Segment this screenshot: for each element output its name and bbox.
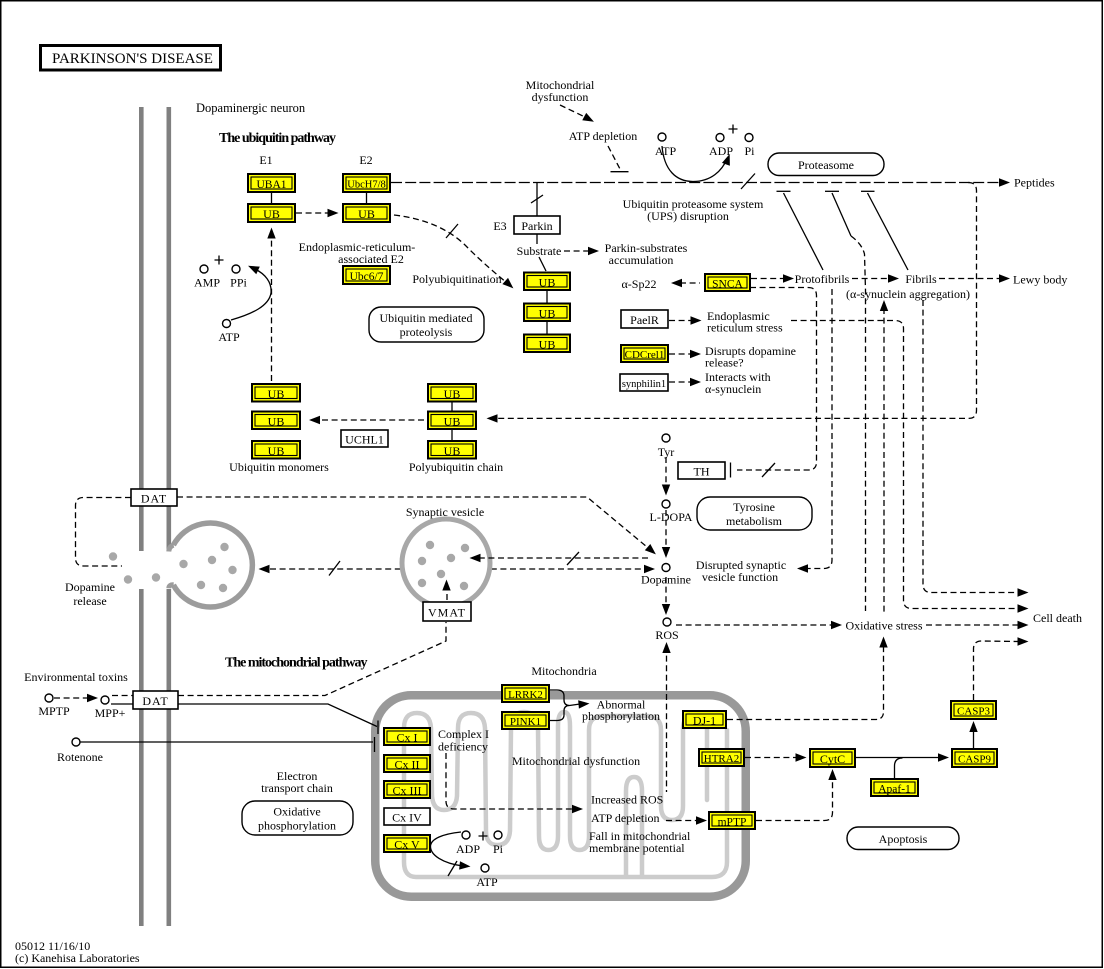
svg-text:Cell death: Cell death <box>1033 611 1082 625</box>
tick on bulb line <box>329 561 340 576</box>
gene box UB monomer 1 <box>252 384 300 402</box>
wire UB substrate 2-3 <box>546 321 548 335</box>
wire proteasome slant to Fibrils <box>868 193 909 270</box>
svg-text:ATP: ATP <box>655 144 677 158</box>
svg-text:Cx IV: Cx IV <box>392 811 422 825</box>
svg-text:α-Sp22: α-Sp22 <box>622 277 657 291</box>
wire UbcH7/8 to Peptides long dashed <box>391 182 1000 184</box>
wire DJ-1 to oxidative stress <box>727 645 884 720</box>
wire DAT to VMAT dashed <box>178 622 446 696</box>
bulb-membrane connector top <box>169 545 174 551</box>
svg-text:ROS: ROS <box>655 628 678 642</box>
wire SNCA inhibits TH <box>737 288 817 471</box>
svg-text:DAT: DAT <box>142 694 168 708</box>
svg-text:ADP: ADP <box>456 842 480 856</box>
gene box UB monomer 3 <box>252 441 300 459</box>
svg-text:E2: E2 <box>359 153 372 167</box>
wire UB chain 2-3 <box>451 429 453 441</box>
gene box CDCrel1 <box>621 345 668 362</box>
wire Parkin to Substrate <box>536 234 538 244</box>
svg-text:AMP: AMP <box>194 276 220 290</box>
svg-text:(c) Kanehisa Laboratories: (c) Kanehisa Laboratories <box>15 951 140 965</box>
svg-text:deficiency: deficiency <box>438 740 488 754</box>
wire ATP depletion inhibition <box>608 146 620 169</box>
svg-text:SNCA: SNCA <box>712 279 743 291</box>
svg-text:Dopamine: Dopamine <box>641 573 691 587</box>
svg-text:UB: UB <box>539 338 556 352</box>
svg-text:UbcH7/8: UbcH7/8 <box>347 180 386 191</box>
svg-text:Dopaminergic neuron: Dopaminergic neuron <box>196 101 306 115</box>
svg-text:Mitochondrial dysfunction: Mitochondrial dysfunction <box>512 754 640 768</box>
svg-text:ATP: ATP <box>218 330 240 344</box>
wire mPTP to CytC <box>756 779 833 821</box>
node MPTP <box>45 694 53 702</box>
gene box DJ-1 <box>683 711 726 728</box>
svg-text:Environmental toxins: Environmental toxins <box>24 670 128 684</box>
gene box UB substrate 2 <box>524 304 570 322</box>
cell membrane bar outer lower <box>139 589 144 926</box>
wire MPP+ to DAT dashed <box>112 695 133 697</box>
svg-text:UB: UB <box>268 444 285 458</box>
wire increased ROS up to ROS <box>666 646 668 792</box>
svg-text:PaelR: PaelR <box>630 313 659 327</box>
white box UCHL1 <box>341 430 388 447</box>
node L-DOPA <box>662 500 670 508</box>
wire SNCA to alpha-Sp22 <box>680 282 700 284</box>
gene box UB substrate 3 <box>524 335 570 353</box>
dopamine release bulb dots <box>109 543 237 592</box>
node ATP proteasome <box>658 133 666 141</box>
svg-text:UB: UB <box>539 307 556 321</box>
wire Dopamine into synaptic vesicle <box>480 557 648 559</box>
svg-text:CDCrel1: CDCrel1 <box>625 349 665 361</box>
svg-text:CASP9: CASP9 <box>958 754 992 766</box>
wire Dopamine to ROS <box>665 577 667 606</box>
wire UB substrate 1-2 <box>546 290 548 304</box>
wire Fibrils to cell death <box>923 300 1019 593</box>
white box Cx IV <box>384 808 430 825</box>
wire UB(E1) to UB(E2) dashed arrow <box>296 212 329 214</box>
svg-text:MPTP: MPTP <box>38 704 70 718</box>
gene box Cx II <box>384 755 430 772</box>
svg-text:PPi: PPi <box>230 276 247 290</box>
gene box Cx V <box>384 835 430 852</box>
wire CASP9 to CASP3 <box>973 727 975 749</box>
svg-text:Mitochondria: Mitochondria <box>531 664 597 678</box>
svg-text:Substrate: Substrate <box>517 244 562 258</box>
svg-text:reticulum stress: reticulum stress <box>707 321 783 335</box>
svg-text:ATP depletion: ATP depletion <box>591 811 660 825</box>
label plus ADP <box>729 125 738 134</box>
wire L-DOPA to Dopamine <box>665 510 667 549</box>
synaptic vesicle dots <box>418 541 469 590</box>
svg-text:Parkin: Parkin <box>521 219 552 233</box>
wire MPP+ to DAT solid <box>111 703 133 705</box>
wire Protofibrils to Fibrils <box>852 278 890 280</box>
gene box LRRK2 <box>502 685 549 702</box>
svg-text:UCHL1: UCHL1 <box>345 433 384 447</box>
svg-text:Fibrils: Fibrils <box>905 272 937 286</box>
gene box CytC <box>810 749 855 767</box>
white box TH <box>678 462 725 479</box>
svg-text:PINK1: PINK1 <box>510 716 541 728</box>
svg-text:Pi: Pi <box>493 842 504 856</box>
wire oxidative stress to cell death <box>926 624 1019 626</box>
svg-text:Apaf-1: Apaf-1 <box>878 784 911 796</box>
svg-text:Apoptosis: Apoptosis <box>879 832 928 846</box>
tick on polyubiquitination curve <box>446 224 458 238</box>
svg-text:Polyubiquitin chain: Polyubiquitin chain <box>409 460 503 474</box>
cell membrane bar outer upper <box>139 107 144 551</box>
svg-text:VMAT: VMAT <box>428 606 466 620</box>
svg-text:UB: UB <box>539 276 556 290</box>
white box VMAT <box>423 602 471 621</box>
wire CytC to CASP9 <box>856 757 944 759</box>
wire polyubiquitin chain to monomers <box>318 419 424 421</box>
wire Fibrils to Lewy body <box>939 278 1000 280</box>
wire Apaf-1 connector <box>895 758 903 779</box>
wire UbcH7/8 to UB(E2) <box>366 192 368 204</box>
svg-text:proteolysis: proteolysis <box>400 325 453 339</box>
bulb-membrane connector bottom <box>169 585 174 588</box>
svg-text:Increased ROS: Increased ROS <box>591 793 663 807</box>
white box PaelR <box>621 310 668 328</box>
wire monomers up to UB(E1) <box>271 236 273 381</box>
svg-text:transport chain: transport chain <box>261 781 333 795</box>
tee bar proteasome 1 <box>777 190 791 192</box>
label plus AMP PPi <box>215 256 224 265</box>
gene box UB chain 2 <box>428 412 476 430</box>
wire SNCA to Protofibrils <box>751 278 785 280</box>
wire Cx V to ADP ATP curve <box>430 832 463 866</box>
wire drop to Parkin <box>536 183 538 216</box>
gene box UB substrate 1 <box>524 273 570 291</box>
gene box UB(E2) <box>343 204 390 222</box>
svg-text:CASP3: CASP3 <box>957 706 991 718</box>
wire PaelR to ER stress <box>669 320 693 322</box>
svg-text:(α-synuclein aggregation): (α-synuclein aggregation) <box>846 287 970 301</box>
cell membrane bar inner lower <box>167 589 172 926</box>
rounded box Ubiquitin mediated proteolysis <box>369 307 484 342</box>
wire polyubiquitination curve <box>394 215 507 283</box>
wire proteasome recycle branch <box>498 183 977 419</box>
wire up into alpha-synuclein aggregation <box>883 308 885 613</box>
label plus ADP Pi mito <box>479 832 488 841</box>
gene box mPTP <box>709 812 755 829</box>
svg-text:ATP depletion: ATP depletion <box>569 129 638 143</box>
tick on Parkin drop <box>531 195 543 203</box>
svg-text:α-synuclein: α-synuclein <box>705 382 761 396</box>
node MPP+ <box>101 696 109 704</box>
svg-text:Ubiquitin monomers: Ubiquitin monomers <box>229 460 329 474</box>
wire DAT left loop to dopamine release <box>76 498 132 567</box>
svg-text:UBA1: UBA1 <box>256 179 286 191</box>
svg-text:HTRA2: HTRA2 <box>704 753 739 765</box>
gene box UbcH7/8 <box>343 174 390 192</box>
svg-text:L-DOPA: L-DOPA <box>650 510 693 524</box>
wire Tyr to L-DOPA <box>665 457 667 487</box>
svg-text:membrane potential: membrane potential <box>589 841 685 855</box>
wire ER stress to cell death <box>791 321 1019 609</box>
svg-text:Proteasome: Proteasome <box>798 158 854 172</box>
gene box UB(E1) <box>248 204 295 222</box>
wire Mitochondrial dysfunction to ATP depletion <box>560 105 587 118</box>
node Rotenone <box>72 738 80 746</box>
svg-text:E3: E3 <box>493 219 506 233</box>
svg-text:release: release <box>73 594 106 608</box>
node ATP mito <box>481 864 489 872</box>
mitochondria cristae inner membrane <box>404 712 727 877</box>
svg-text:Lewy body: Lewy body <box>1013 273 1067 287</box>
gene box UBA1 <box>248 174 295 192</box>
svg-text:release?: release? <box>705 356 744 370</box>
svg-text:Oxidative: Oxidative <box>273 805 320 819</box>
svg-text:phosphorylation: phosphorylation <box>258 819 336 833</box>
wire UBA1 to UB(E1) <box>271 192 273 204</box>
tick on TH line <box>762 463 775 477</box>
gene box Cx III <box>384 781 430 798</box>
white box DAT lower <box>133 691 178 709</box>
svg-text:synphilin1: synphilin1 <box>622 379 666 390</box>
svg-text:UB: UB <box>268 387 285 401</box>
svg-text:The ubiquitin pathway: The ubiquitin pathway <box>219 131 336 146</box>
wire ROS to oxidative stress <box>676 624 833 626</box>
wire Substrate to Parkin-substrates accumulation <box>564 250 590 252</box>
wire Substrate to UB stack <box>539 257 546 271</box>
rounded box Tyrosine metabolism <box>697 497 812 530</box>
tee bar proteasome 2 <box>825 190 839 192</box>
svg-text:Cx II: Cx II <box>395 758 420 772</box>
gene box CASP3 <box>951 701 996 719</box>
wire ATP to ADP arc <box>662 146 728 182</box>
tick on peptides line <box>741 174 755 190</box>
svg-text:UB: UB <box>444 387 461 401</box>
svg-text:UB: UB <box>444 415 461 429</box>
svg-text:Peptides: Peptides <box>1014 176 1055 190</box>
wire synphilin1 arrow <box>669 381 692 383</box>
svg-text:UB: UB <box>358 207 375 221</box>
wire proteasome slant middle <box>832 193 851 236</box>
mitochondria outer membrane <box>375 695 746 897</box>
tick on Cx V ATP curve <box>448 861 457 876</box>
svg-text:associated E2: associated E2 <box>338 252 404 266</box>
node ADP mito <box>462 831 470 839</box>
svg-text:DJ-1: DJ-1 <box>693 714 716 728</box>
rounded box Proteasome <box>768 153 884 176</box>
node Tyr <box>662 434 670 442</box>
svg-text:MPP+: MPP+ <box>95 706 126 720</box>
tee bar ATP depletion <box>611 171 629 173</box>
svg-text:vesicle function: vesicle function <box>702 570 778 584</box>
svg-text:Cx V: Cx V <box>394 838 420 852</box>
gene box UB monomer 2 <box>252 412 300 430</box>
node Dopamine <box>662 564 670 572</box>
svg-text:ATP: ATP <box>476 875 498 889</box>
wire proteasome slant to Protofibrils <box>784 193 824 270</box>
synaptic vesicle ring <box>402 519 490 607</box>
svg-text:Cx I: Cx I <box>397 731 418 745</box>
svg-text:Cx III: Cx III <box>393 784 422 798</box>
cell membrane bar inner upper <box>167 107 172 551</box>
svg-text:PARKINSON'S DISEASE: PARKINSON'S DISEASE <box>52 51 213 67</box>
wire MPTP to MPP+ <box>54 697 93 699</box>
svg-text:The mitochondrial pathway: The mitochondrial pathway <box>225 656 367 671</box>
white box Parkin <box>514 216 560 234</box>
gene box HTRA2 <box>699 749 744 766</box>
svg-text:Ubc6/7: Ubc6/7 <box>350 271 384 283</box>
wire Rotenone to complex I <box>80 741 373 743</box>
node ADP proteasome <box>716 134 724 142</box>
svg-text:phosphorylation: phosphorylation <box>582 709 660 723</box>
node AMP <box>200 265 208 273</box>
svg-text:Tyr: Tyr <box>658 445 675 459</box>
svg-text:CytC: CytC <box>820 752 845 766</box>
gene box UB chain 3 <box>428 441 476 459</box>
wire synaptic vesicle to dopamine release bulb and Dopamine <box>270 568 645 570</box>
wire DAT to complex I solid <box>178 704 377 727</box>
node PPi <box>232 265 240 273</box>
svg-text:Pi: Pi <box>744 144 755 158</box>
rounded box Oxidative phosphorylation <box>242 801 353 835</box>
wire HTRA2 to CytC <box>745 757 798 759</box>
svg-text:accumulation: accumulation <box>609 253 674 267</box>
svg-text:(UPS) disruption: (UPS) disruption <box>647 209 729 223</box>
svg-text:Ubiquitin mediated: Ubiquitin mediated <box>380 311 473 325</box>
svg-text:Tyrosine: Tyrosine <box>733 500 775 514</box>
wire VMAT into vesicle <box>446 588 448 600</box>
gene box UB chain 1 <box>428 384 476 402</box>
wire ATP to PPi curve <box>231 269 271 320</box>
wire UB chain 1-2 <box>451 402 453 412</box>
svg-text:mPTP: mPTP <box>718 817 747 829</box>
node ATP ubiquitin <box>223 320 231 328</box>
gene box Ubc6/7 <box>343 266 390 284</box>
svg-text:metabolism: metabolism <box>726 514 783 528</box>
wire DAT right to Dopamine <box>177 497 650 550</box>
node ROS <box>663 618 671 626</box>
svg-text:ADP: ADP <box>709 144 733 158</box>
tee bar TH <box>730 463 732 478</box>
wire middle slant to oxidative stress vertical <box>851 236 866 611</box>
svg-text:UB: UB <box>444 444 461 458</box>
wire brace to abnormal phosphorylation <box>570 704 581 706</box>
dopamine release bulb ring <box>173 523 252 607</box>
wire CASP3 to cell death <box>974 641 1020 700</box>
svg-text:Rotenone: Rotenone <box>57 750 103 764</box>
svg-text:Oxidative stress: Oxidative stress <box>846 619 923 633</box>
gene box CASP9 <box>952 749 997 767</box>
gene box SNCA <box>705 274 750 291</box>
svg-text:Protofibrils: Protofibrils <box>795 272 850 286</box>
svg-text:TH: TH <box>694 465 710 479</box>
gene box PINK1 <box>502 712 549 729</box>
node Pi proteasome <box>745 134 753 142</box>
wire LRRK2 PINK1 brace <box>550 690 570 721</box>
white box DAT upper <box>131 489 177 506</box>
svg-text:Polyubiquitination: Polyubiquitination <box>412 272 501 286</box>
white box synphilin1 <box>620 374 668 391</box>
svg-text:Synaptic vesicle: Synaptic vesicle <box>406 505 484 519</box>
tick on vesicle uptake line <box>567 552 579 565</box>
svg-text:E1: E1 <box>259 153 272 167</box>
tee bar complex I lower <box>374 737 376 752</box>
svg-text:dysfunction: dysfunction <box>532 90 589 104</box>
title box <box>41 46 221 71</box>
rounded box Apoptosis <box>847 827 959 850</box>
svg-text:UB: UB <box>268 415 285 429</box>
node Pi mito <box>494 831 502 839</box>
tee bar proteasome 3 <box>861 190 875 192</box>
wire Complex I deficiency to increased ROS <box>446 753 574 809</box>
svg-text:Dopamine: Dopamine <box>65 580 115 594</box>
svg-text:UB: UB <box>263 207 280 221</box>
gene box Cx I <box>384 728 430 745</box>
wire Protofibrils to disrupted vesicle function <box>806 289 832 569</box>
svg-text:DAT: DAT <box>141 492 167 506</box>
wire ATP depletion to mPTP <box>666 820 698 822</box>
tee bar complex I upper <box>377 721 379 735</box>
wire CDCrel1 arrow <box>669 353 692 355</box>
gene box Apaf-1 <box>871 779 918 796</box>
svg-text:LRRK2: LRRK2 <box>508 689 543 701</box>
